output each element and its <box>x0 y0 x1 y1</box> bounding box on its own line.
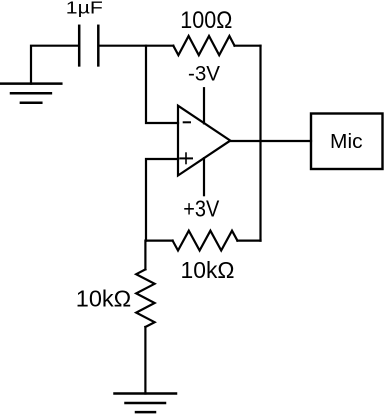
svg-text:10kΩ: 10kΩ <box>181 257 235 283</box>
svg-text:Mic: Mic <box>330 131 363 153</box>
svg-text:100Ω: 100Ω <box>180 7 232 34</box>
svg-text:+3V: +3V <box>183 196 220 222</box>
svg-text:1µF: 1µF <box>66 0 103 18</box>
svg-text:-3V: -3V <box>188 62 221 86</box>
svg-text:10kΩ: 10kΩ <box>76 286 132 312</box>
